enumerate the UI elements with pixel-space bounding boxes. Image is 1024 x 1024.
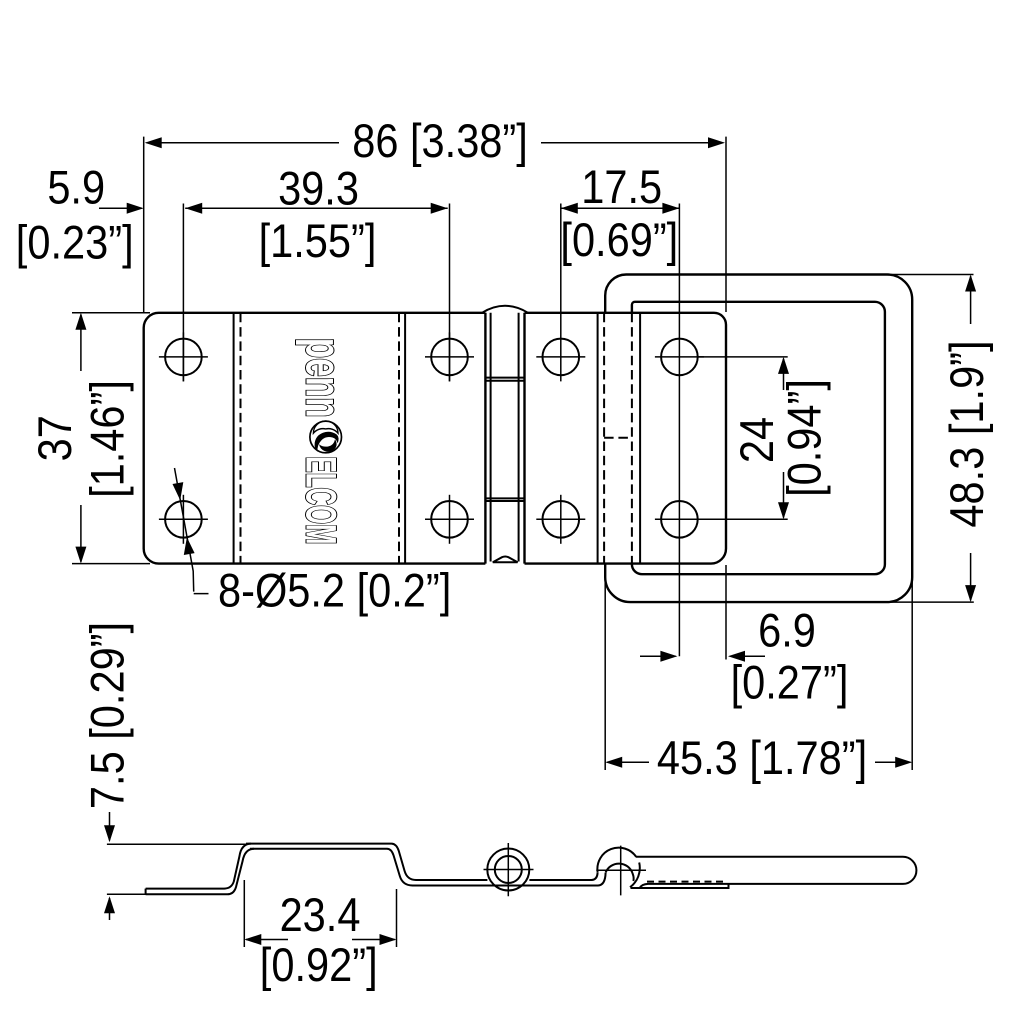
hole D1	[655, 339, 704, 376]
svg-text:[0.23”]: [0.23”]	[16, 217, 134, 269]
extension line leaf right edge bottom	[725, 565, 727, 660]
side view curl outer arc lower	[630, 863, 640, 888]
dimension 39.3 arrows	[185, 203, 448, 214]
side view barrel crosshair	[484, 843, 534, 896]
extension line plate top left	[72, 312, 150, 314]
svg-text:[1.46”]: [1.46”]	[82, 380, 134, 498]
leader arrows at hole	[173, 482, 195, 555]
dimension 6.9 right arrow	[730, 655, 765, 657]
svg-text:[0.94”]: [0.94”]	[779, 379, 831, 497]
side view hat top inner, right fall inner, base bottom	[250, 849, 606, 886]
hole C1	[536, 339, 585, 376]
dimension 45.3 line	[607, 761, 910, 763]
dimension 45.3 arrows	[605, 757, 912, 768]
side view left bar bottom edge and rise inner	[146, 849, 254, 895]
dimension 48.3 line	[970, 276, 972, 600]
side view strap top edge	[636, 857, 916, 888]
extension line flap bottom right	[885, 601, 974, 603]
dimension 24 line	[783, 359, 785, 518]
extension line flap left bottom	[604, 565, 606, 770]
dimension 5.9 line with arrow	[99, 207, 142, 209]
extension line flap top right	[885, 274, 974, 276]
svg-text:5.9: 5.9	[47, 162, 105, 214]
side view curl crosshair	[596, 846, 646, 896]
side view curl outer arc upper	[597, 848, 636, 872]
svg-text:[0.27”]: [0.27”]	[731, 657, 849, 709]
latch flap inner outline	[632, 302, 885, 574]
dimension 48.3 arrows	[965, 275, 976, 603]
flap curl left tangent (solid)	[597, 313, 599, 564]
hole D2	[655, 501, 704, 538]
side view barrel pin circle	[495, 856, 522, 883]
hole B2	[425, 495, 474, 544]
bend line left outer (solid)	[233, 313, 235, 564]
extension line hat top left	[107, 843, 246, 845]
svg-text:[0.69”]: [0.69”]	[560, 214, 678, 266]
hinge barrel knuckle	[485, 313, 524, 564]
dimension 24 arrows	[778, 357, 789, 519]
hidden leaf end edge (dashed)	[604, 437, 632, 439]
extension line flap right bottom	[911, 550, 913, 770]
extension line hole row2 right	[698, 518, 788, 520]
extension line plate left edge	[143, 137, 145, 312]
svg-text:45.3 [1.78”]: 45.3 [1.78”]	[657, 732, 867, 784]
dimension 86 line	[147, 142, 724, 144]
barrel pin tip	[493, 557, 518, 563]
svg-text:17.5: 17.5	[581, 161, 662, 213]
svg-text:48.3 [1.9”]: 48.3 [1.9”]	[941, 340, 993, 527]
flap curl right tangent (solid)	[639, 313, 641, 564]
dimension 6.9 left arrow	[640, 655, 676, 657]
hole A1 top-left	[159, 332, 208, 381]
leader line 8-dia5.2	[175, 468, 209, 594]
side view left bar end tick	[145, 889, 147, 895]
bend line left inner (dashed)	[240, 313, 242, 564]
extension line hole col3	[560, 204, 562, 382]
latch flap outer outline	[605, 275, 912, 603]
extension line hole row1 right	[698, 356, 788, 358]
extension line leaf right edge top	[725, 137, 727, 312]
dimension 17.5 arrows	[561, 203, 680, 214]
extension line hat inner left	[243, 880, 245, 947]
svg-text:86 [3.38”]: 86 [3.38”]	[352, 115, 528, 167]
side view barrel circle outer	[487, 849, 529, 891]
dimension 39.3 line	[185, 207, 448, 209]
hole B1	[425, 332, 474, 381]
dimension 23.4 line	[246, 939, 395, 941]
side view leaf hidden edge under strap (dashed)	[647, 881, 724, 883]
dimension 37 arrows	[75, 313, 86, 564]
svg-text:ELCOM: ELCOM	[297, 456, 345, 544]
side view left bar top edge and rise outer	[146, 844, 251, 889]
knuckle split lower	[485, 498, 524, 501]
dimension 37 line	[80, 315, 82, 562]
extension line hole col4	[678, 204, 680, 657]
Penn Elcom logo rotated	[296, 338, 352, 545]
side view curl inner arc	[606, 864, 634, 881]
barrel top cap	[482, 306, 528, 313]
hole C2	[536, 495, 585, 544]
svg-text:8-Ø5.2 [0.2”]: 8-Ø5.2 [0.2”]	[218, 565, 451, 617]
extension line bar bottom left	[107, 893, 146, 895]
knuckle split upper	[485, 378, 524, 381]
extension line plate bottom left	[72, 563, 150, 565]
svg-text:penn: penn	[296, 338, 352, 418]
svg-text:7.5 [0.29”]: 7.5 [0.29”]	[82, 622, 134, 809]
svg-text:[0.92”]: [0.92”]	[260, 939, 378, 991]
dimension 17.5 line	[561, 207, 680, 209]
side view leaf bottom edge	[631, 884, 729, 888]
right hinge leaf plate	[525, 313, 727, 564]
svg-text:24: 24	[731, 417, 783, 463]
dimension 86 arrows	[145, 137, 725, 148]
extension line hole col1	[182, 204, 184, 382]
dimension 7.5 arrows	[109, 812, 111, 920]
dimension 23.4 arrows	[244, 934, 396, 945]
svg-text:[1.55”]: [1.55”]	[259, 215, 377, 267]
svg-text:6.9: 6.9	[758, 605, 816, 657]
left hinge leaf plate	[144, 313, 486, 564]
svg-text:23.4: 23.4	[280, 889, 361, 941]
svg-text:39.3: 39.3	[278, 163, 359, 215]
bend line right inner (dashed)	[398, 313, 400, 564]
flap outer left edge hidden (dashed)	[603, 313, 605, 564]
bend line right outer (solid)	[404, 313, 406, 564]
extension line hat inner right	[396, 889, 398, 947]
svg-text:37: 37	[29, 415, 81, 461]
flap inner left edge hidden (dashed)	[631, 313, 633, 564]
extension line hole col2	[449, 204, 451, 382]
hole A2 bottom-left	[159, 495, 208, 544]
side view hat top outer, right fall, base top	[246, 844, 598, 880]
